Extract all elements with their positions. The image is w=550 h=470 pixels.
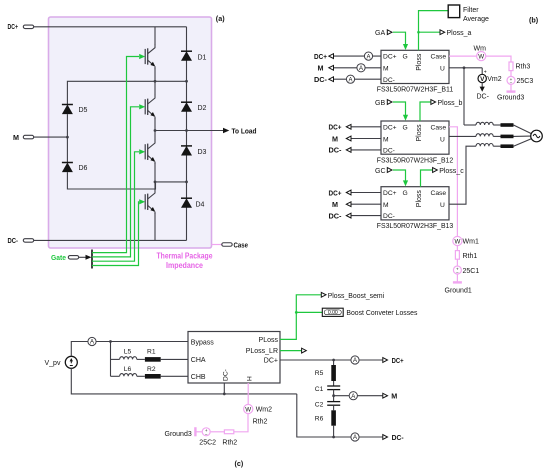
meter Wm2 <box>244 404 253 413</box>
module U1 FS3L50R07W2H3F_B11 <box>381 50 449 84</box>
port Ploss_a <box>440 30 445 35</box>
wire DC- rail <box>34 239 187 241</box>
terminal Case <box>222 243 232 247</box>
source V_pv <box>65 356 77 368</box>
svg-text:Case: Case <box>431 124 447 131</box>
svg-text:DC+: DC+ <box>329 123 342 132</box>
svg-text:Wm1: Wm1 <box>463 239 479 246</box>
wire B11 Ploss up <box>419 11 448 51</box>
wire Rth1 to 25C1 <box>456 259 458 266</box>
port Ploss_Boost_semi <box>321 292 326 297</box>
svg-text:L6: L6 <box>124 366 132 373</box>
svg-text:L5: L5 <box>124 348 132 355</box>
capacitor C2 <box>327 402 340 406</box>
resistor Rth1 <box>455 251 459 260</box>
wire phase A to bar <box>493 124 500 126</box>
voltmeter Vm2 <box>478 74 486 83</box>
svg-text:DC-: DC- <box>477 93 490 100</box>
svg-text:Ground1: Ground1 <box>445 288 472 295</box>
node Q1-Q2 junction <box>154 80 157 83</box>
port GB <box>387 100 392 105</box>
arrow GA into G <box>403 44 408 50</box>
resistor R1 <box>145 357 161 362</box>
svg-text:25C1: 25C1 <box>463 268 480 275</box>
svg-text:V_pv: V_pv <box>45 360 61 367</box>
svg-text:DC-: DC- <box>329 211 343 220</box>
display boost losses <box>322 308 343 316</box>
wire Q2 emitter <box>154 118 156 131</box>
wire phase A to source <box>514 125 532 134</box>
svg-text:DC+: DC+ <box>383 54 397 61</box>
wire gate G2 <box>92 107 139 257</box>
ammeter Am3 <box>346 75 354 83</box>
svg-text:DC+: DC+ <box>383 124 397 131</box>
resistor Rth2 <box>224 430 233 434</box>
svg-text:PLoss_LR: PLoss_LR <box>246 348 278 355</box>
wire B11 Case <box>449 55 477 57</box>
wire Vm2 to DC- ref <box>481 83 483 87</box>
svg-text:C2: C2 <box>315 402 324 409</box>
wire V_pv top <box>71 342 88 357</box>
svg-text:FS3L50R07W2H3F_B11: FS3L50R07W2H3F_B11 <box>377 87 454 94</box>
wire D5 to M <box>66 114 68 163</box>
boost block U4 <box>188 332 280 384</box>
svg-text:D2: D2 <box>198 105 207 112</box>
node M clamp junction <box>66 136 69 139</box>
svg-text:Rth3: Rth3 <box>516 64 531 71</box>
terminal M <box>23 135 33 139</box>
meter Wm <box>477 52 486 61</box>
wire M <box>34 136 68 138</box>
svg-text:0.00: 0.00 <box>328 310 338 316</box>
inductor L6 <box>120 374 137 377</box>
svg-text:U: U <box>440 136 445 143</box>
ammeter Am7 <box>351 433 359 441</box>
ground Ground1 <box>453 274 462 282</box>
wire GB to G <box>393 102 406 115</box>
wire C1 to M node <box>333 390 335 402</box>
wire PLoss out <box>280 295 321 340</box>
inductor L5 <box>120 357 137 360</box>
arrow gate G1 <box>139 54 145 59</box>
node DC- pin junction <box>223 393 226 396</box>
node U junction <box>463 66 466 69</box>
svg-text:M: M <box>13 133 19 142</box>
wire R5 branch <box>333 360 335 365</box>
svg-text:D5: D5 <box>79 107 88 114</box>
svg-text:Gate: Gate <box>51 253 66 262</box>
node D3-D4 <box>185 181 188 184</box>
svg-text:M: M <box>332 134 338 143</box>
terminal Gate <box>68 256 78 260</box>
wire DC+ rail <box>34 26 187 28</box>
arrow B13 M <box>346 202 351 207</box>
svg-text:DC-: DC- <box>383 77 395 84</box>
svg-text:Ploss_a: Ploss_a <box>447 30 472 37</box>
terminal DC- <box>23 239 33 243</box>
wire DC- out <box>334 436 383 438</box>
wire Wm1 to Rth1 <box>456 246 458 251</box>
svg-text:D1: D1 <box>198 55 207 62</box>
inductor phase B <box>476 134 493 137</box>
wire B13 DC- input <box>351 215 382 217</box>
svg-text:25C2: 25C2 <box>199 440 216 447</box>
ammeter Am5 <box>351 356 359 364</box>
source 25C3 <box>507 76 515 85</box>
port DC+ out <box>383 358 388 363</box>
transistor Q4 <box>145 190 155 214</box>
node Ploss tee <box>417 31 420 34</box>
ammeter Am4 <box>88 337 96 345</box>
svg-text:Rth1: Rth1 <box>463 253 478 260</box>
svg-text:G: G <box>403 124 408 131</box>
port GA <box>387 30 392 35</box>
source 25C1 <box>453 266 461 275</box>
wire R1 to CHA <box>161 358 188 360</box>
wire Wm to Rth3 <box>486 56 511 62</box>
svg-text:Ploss_c: Ploss_c <box>439 168 464 175</box>
arrow gate G4 <box>139 199 145 204</box>
svg-text:M: M <box>383 136 389 143</box>
svg-text:R2: R2 <box>147 366 156 373</box>
port Ploss_b <box>431 100 436 105</box>
wire LC branch vertical <box>110 342 112 377</box>
wire gate G3 <box>92 152 139 261</box>
svg-text:Wm2: Wm2 <box>256 407 272 414</box>
svg-text:U: U <box>440 202 445 209</box>
svg-text:+: + <box>484 69 487 75</box>
module U3 FS3L50R07W2H3F_B13 <box>381 187 449 221</box>
wire block DC- pin <box>223 383 225 394</box>
wire GA to G <box>393 32 406 44</box>
wire B11 U <box>449 67 482 69</box>
wire B13 U phase C <box>449 146 476 204</box>
diode D4 <box>181 198 192 208</box>
node DC+ branch <box>332 359 335 362</box>
node PLoss branch <box>295 311 298 314</box>
wire V_pv bottom rail <box>71 368 296 394</box>
wire L5 lead <box>111 358 120 360</box>
svg-text:Impedance: Impedance <box>166 261 203 270</box>
wire Q4 emitter <box>154 213 156 240</box>
arrow B11 DC+ <box>329 54 334 59</box>
svg-text:Average: Average <box>463 16 489 23</box>
wire Q2 collector <box>154 81 156 95</box>
meter Wm1 <box>453 236 462 245</box>
svg-text:R5: R5 <box>315 370 324 377</box>
arrow gate G2 <box>139 104 145 109</box>
svg-text:R1: R1 <box>147 348 156 355</box>
node Q3-Q4 junction <box>154 181 157 184</box>
transistor Q3 <box>145 140 155 164</box>
ammeter Am2 <box>357 64 365 72</box>
module U2 FS3L50R07W2H3F_B12 <box>381 121 449 155</box>
arrow gate G3 <box>139 149 145 154</box>
svg-text:M: M <box>332 200 338 209</box>
wire B12 Case down <box>449 127 457 237</box>
svg-text:Case: Case <box>234 240 249 249</box>
svg-text:Rth2: Rth2 <box>253 419 268 426</box>
svg-text:U: U <box>440 66 445 73</box>
inductor phase A <box>476 122 493 125</box>
wire M out <box>334 395 383 397</box>
wire Q1 emitter <box>154 68 156 81</box>
wire B11 DC+ input <box>333 55 381 57</box>
wire Q4 collector <box>154 182 156 190</box>
diode D3 <box>181 146 192 156</box>
resistor R5 <box>331 365 336 381</box>
wire to-load <box>155 130 224 132</box>
diode D5 <box>62 105 73 115</box>
ground Ground3c <box>195 427 201 436</box>
port DC- out <box>383 435 388 440</box>
svg-text:GC: GC <box>375 168 386 175</box>
svg-text:Rth2: Rth2 <box>222 440 237 447</box>
resistor R2 <box>145 374 161 379</box>
arrow B11 M <box>329 65 334 70</box>
wire gate G4 <box>92 202 139 266</box>
port PLoss_LR <box>302 348 307 353</box>
svg-text:DC-: DC- <box>8 236 19 245</box>
ammeter Am1 <box>364 52 372 60</box>
svg-text:G: G <box>403 190 408 197</box>
svg-text:Bypass: Bypass <box>191 339 214 346</box>
source 25C2 <box>202 428 210 437</box>
svg-text:DC-: DC- <box>392 433 405 442</box>
wire B12 DC+ input <box>351 126 382 128</box>
wire case <box>212 244 223 246</box>
node M branch <box>332 394 335 397</box>
svg-text:CHA: CHA <box>191 357 206 364</box>
wire R5 to C1 <box>333 381 335 386</box>
svg-text:M: M <box>391 392 397 401</box>
wire Ploss_a branch <box>419 31 440 33</box>
svg-text:D6: D6 <box>79 165 88 172</box>
svg-text:M: M <box>383 66 389 73</box>
wire R6 to DC- rail <box>333 426 335 437</box>
svg-text:DC-: DC- <box>222 369 229 381</box>
svg-text:Ground3: Ground3 <box>165 431 192 438</box>
cable bar phase B <box>501 135 514 139</box>
wire L6 to R2 <box>137 375 145 377</box>
svg-text:H: H <box>246 376 253 381</box>
svg-text:Ground3: Ground3 <box>497 95 524 102</box>
svg-text:DC+: DC+ <box>392 356 404 365</box>
wire C2 to R6 <box>333 405 335 410</box>
filter average block <box>448 5 460 18</box>
svg-text:DC+: DC+ <box>264 358 278 365</box>
transistor Q2 <box>145 95 155 119</box>
inductor phase C <box>476 144 493 147</box>
svg-text:DC+: DC+ <box>383 190 397 197</box>
capacitor C1 <box>327 386 340 390</box>
wire B13 Ploss up <box>421 170 433 187</box>
svg-text:D3: D3 <box>198 149 207 156</box>
svg-text:DC-: DC- <box>383 148 395 155</box>
svg-text:GA: GA <box>375 30 385 37</box>
wire Rth2 to 25C2 <box>211 431 225 433</box>
svg-text:G: G <box>403 54 408 61</box>
arrow B11 DC- <box>329 77 334 82</box>
svg-text:Vm2: Vm2 <box>487 76 502 83</box>
thermal package box <box>49 17 212 248</box>
wire B11 M input <box>333 67 381 69</box>
wire Rth3 to 25C3 <box>510 71 512 77</box>
arrow GB into G <box>403 115 408 121</box>
ammeter Am6 <box>349 392 357 400</box>
port M out <box>383 393 388 398</box>
svg-text:DC+: DC+ <box>329 188 342 197</box>
wire phase A lead <box>464 124 476 126</box>
wire gate G1 <box>92 57 139 253</box>
wire D6 bottom <box>67 172 155 189</box>
svg-text:D4: D4 <box>196 202 205 209</box>
ground Ground3 <box>507 84 516 91</box>
port GC <box>387 168 392 173</box>
arrow DC- ref <box>480 87 485 92</box>
wire diode column <box>186 27 188 241</box>
wire clamp top <box>67 81 186 105</box>
wire B12 M input <box>351 138 382 140</box>
svg-text:DC-: DC- <box>329 146 343 155</box>
cable bar phase C <box>501 144 514 148</box>
wire Q3-Q4 junction <box>155 181 187 183</box>
node D1-D2 <box>185 80 188 83</box>
arrow to load <box>223 128 229 133</box>
wire bottom rail down <box>297 394 334 437</box>
svg-text:25C3: 25C3 <box>517 78 534 85</box>
wire B12 DC- input <box>351 149 382 151</box>
svg-text:Ploss_b: Ploss_b <box>438 100 463 107</box>
svg-text:CHB: CHB <box>191 374 206 381</box>
diode D6 <box>62 163 73 173</box>
resistor Rth3 <box>509 62 513 71</box>
svg-text:DC+: DC+ <box>314 52 327 61</box>
svg-text:Filter: Filter <box>463 7 479 14</box>
svg-text:(b): (b) <box>529 16 539 25</box>
svg-text:To Load: To Load <box>232 126 257 135</box>
wire U down to phase A <box>463 68 465 125</box>
wire Q3 collector <box>154 131 156 141</box>
wire B12 U phase B <box>449 135 476 137</box>
node branch LC <box>109 340 112 343</box>
svg-text:Case: Case <box>431 54 447 61</box>
svg-text:C1: C1 <box>315 386 324 393</box>
ac source <box>531 130 543 142</box>
diode D2 <box>181 102 192 112</box>
svg-text:(c): (c) <box>235 459 244 468</box>
diode D1 <box>181 51 192 61</box>
wire Q1 collector <box>154 27 156 45</box>
arrow B13 DC+ <box>346 190 351 195</box>
wire GC to G <box>393 170 406 181</box>
svg-text:Ploss: Ploss <box>416 53 423 71</box>
arrow B12 DC- <box>346 148 351 153</box>
gate bundle bar <box>91 250 93 269</box>
svg-text:Ploss: Ploss <box>416 190 423 208</box>
svg-text:Thermal Package: Thermal Package <box>157 252 213 261</box>
wire PLoss_LR out <box>280 350 301 352</box>
wire to Bypass <box>96 341 188 343</box>
wire display branch <box>296 311 322 313</box>
node load junction <box>154 129 157 132</box>
arrow B12 M <box>346 136 351 141</box>
svg-text:DC-: DC- <box>383 213 395 220</box>
wire Q3 emitter <box>154 163 156 182</box>
svg-text:M: M <box>383 202 389 209</box>
svg-text:M: M <box>318 64 324 73</box>
svg-text:FS3L50R07W2H3F_B12: FS3L50R07W2H3F_B12 <box>377 157 454 164</box>
svg-text:V: V <box>480 76 485 83</box>
svg-text:DC-: DC- <box>314 75 328 84</box>
svg-text:Ploss: Ploss <box>416 124 423 142</box>
wire B12 Ploss up <box>420 102 431 121</box>
wire Wm2 down left <box>234 414 248 432</box>
arrow GC into G <box>403 180 408 186</box>
svg-text:FS3L50R07W2H3F_B13: FS3L50R07W2H3F_B13 <box>377 223 454 230</box>
wire L6 lead <box>111 375 120 377</box>
svg-text:DC+: DC+ <box>8 22 19 31</box>
svg-text:PLoss: PLoss <box>259 337 279 344</box>
wire to Vm2 <box>481 68 483 75</box>
wire gate lead <box>79 256 87 258</box>
svg-text:R6: R6 <box>315 415 324 422</box>
wire R2 to CHB <box>161 375 188 377</box>
resistor R6 <box>331 410 336 425</box>
node DC- branch <box>332 436 335 439</box>
svg-text:Wm: Wm <box>474 45 487 52</box>
svg-text:(a): (a) <box>216 14 225 23</box>
wire DC+ out <box>280 359 382 361</box>
terminal DC+ <box>23 25 33 29</box>
wire phase B to bar <box>493 135 500 137</box>
transistor Q1 <box>145 44 155 68</box>
wire H pin down <box>247 383 249 404</box>
svg-text:Case: Case <box>431 190 447 197</box>
arrow B12 DC+ <box>346 124 351 129</box>
port Ploss_c <box>433 168 438 173</box>
arrow gate lead <box>86 255 92 260</box>
cable bar phase A <box>501 123 514 127</box>
wire B13 DC+ input <box>351 192 382 194</box>
svg-text:GB: GB <box>375 100 385 107</box>
svg-text:Boost Conveter Losses: Boost Conveter Losses <box>346 310 417 317</box>
wire B11 DC- input <box>333 78 381 80</box>
wire phase B to source <box>514 135 531 137</box>
wire B13 M input <box>351 203 382 205</box>
svg-text:Ploss_Boost_semi: Ploss_Boost_semi <box>328 293 385 300</box>
wire L5 to R1 <box>137 358 145 360</box>
wire phase C to source <box>514 139 532 147</box>
arrow B13 DC- <box>346 213 351 218</box>
wire phase C to bar <box>493 145 500 147</box>
node D2-D3 <box>185 129 188 132</box>
